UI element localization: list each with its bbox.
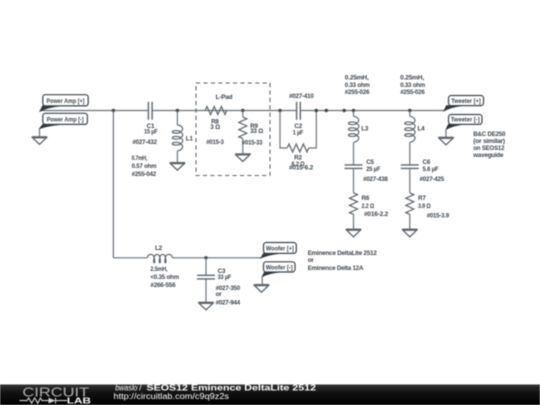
- svg-text:#255-026: #255-026: [400, 89, 425, 96]
- ground (R9): [235, 154, 250, 162]
- resistor R2 parallel branch: [280, 111, 316, 172]
- resistor R6: [350, 168, 389, 229]
- resistor R7: [406, 168, 450, 229]
- svg-text:#016-2.2: #016-2.2: [364, 211, 389, 218]
- svg-text:R6: R6: [362, 195, 370, 202]
- inductor L1: [172, 109, 193, 163]
- svg-text:1 µF: 1 µF: [293, 129, 304, 136]
- L1 value text: [132, 155, 157, 178]
- flag Woofer [+]: [261, 243, 296, 259]
- L3 value text: [345, 75, 370, 96]
- svg-text:L2: L2: [155, 245, 163, 252]
- svg-text:0.25mH,: 0.25mH,: [345, 75, 369, 82]
- wire: Power Amp [-] to ground: [39, 128, 41, 136]
- node: C3 junction: [204, 256, 207, 259]
- svg-text:Woofer [-]: Woofer [-]: [266, 265, 293, 272]
- svg-text:(or similar): (or similar): [473, 138, 505, 145]
- node: junction to woofer branch: [112, 109, 115, 112]
- node: wire junction a: [325, 109, 328, 112]
- svg-text:bwaslo: bwaslo: [115, 383, 138, 392]
- tweeter note text: [472, 131, 506, 159]
- svg-text:0.7mH,: 0.7mH,: [132, 155, 148, 162]
- svg-text:#015-3: #015-3: [206, 139, 224, 146]
- node: R9 junction: [241, 109, 244, 112]
- ground (Power Amp [-]): [32, 137, 47, 145]
- svg-text:or: or: [216, 291, 223, 298]
- resistor R8: [205, 107, 227, 147]
- flag Tweeter [+]: [444, 96, 484, 111]
- svg-text:on SEOS12: on SEOS12: [473, 145, 505, 152]
- svg-text:SEOS12 Eminence DeltaLite 2512: SEOS12 Eminence DeltaLite 2512: [147, 383, 317, 392]
- svg-text:#266-556: #266-556: [150, 282, 176, 289]
- ground (L1): [170, 163, 185, 171]
- wire: junction down to woofer branch: [112, 111, 114, 258]
- svg-text:#027-432: #027-432: [132, 139, 157, 146]
- svg-text:<0.35 ohm: <0.35 ohm: [150, 274, 179, 281]
- svg-text:or: or: [308, 257, 315, 264]
- flag Power Amp [+]: [40, 95, 88, 112]
- svg-text:Woofer [+]: Woofer [+]: [266, 246, 294, 253]
- woofer note text: [308, 250, 378, 272]
- svg-text:#015-33: #015-33: [242, 140, 263, 147]
- ground (Tweeter [-]): [438, 137, 453, 145]
- L-Pad dashed box: [196, 83, 270, 176]
- svg-text:Tweeter [+]: Tweeter [+]: [451, 98, 481, 105]
- svg-text:0.33 ohm: 0.33 ohm: [400, 82, 425, 89]
- svg-text:R7: R7: [418, 195, 426, 202]
- wire: main top horizontal from Power Amp [+] to C1 left plate: [40, 110, 148, 112]
- svg-text:#027-425: #027-425: [420, 176, 445, 183]
- svg-text:#027-410: #027-410: [289, 93, 314, 100]
- inductor L4: [405, 109, 425, 165]
- svg-text:Eminence DeltaLite 2512: Eminence DeltaLite 2512: [308, 250, 378, 257]
- node: C2 left: [278, 109, 281, 112]
- svg-text:Tweeter [-]: Tweeter [-]: [451, 117, 480, 124]
- svg-text:0.33 ohm: 0.33 ohm: [345, 82, 370, 89]
- node: C2 right: [315, 109, 318, 112]
- circuitlab logo: [20, 386, 91, 405]
- svg-text:L1: L1: [186, 135, 194, 142]
- svg-text:Power Amp [+]: Power Amp [+]: [47, 98, 85, 105]
- wire: L2 to woofer: [173, 257, 261, 259]
- svg-text:2.5mH,: 2.5mH,: [150, 266, 167, 273]
- svg-text:0.57 ohm: 0.57 ohm: [132, 163, 157, 170]
- svg-text:#027-944: #027-944: [216, 299, 241, 306]
- svg-text:#255-042: #255-042: [132, 171, 157, 178]
- svg-text:waveguide: waveguide: [472, 152, 504, 159]
- svg-text:Eminence Delta 12A: Eminence Delta 12A: [308, 265, 364, 272]
- L4 value text: [400, 75, 425, 96]
- svg-text:#015-6.2: #015-6.2: [289, 165, 314, 172]
- capacitor C5: [345, 159, 389, 183]
- svg-text:L4: L4: [418, 126, 426, 133]
- svg-text:3.9 Ω: 3.9 Ω: [418, 203, 431, 210]
- ground (R7): [402, 229, 417, 237]
- svg-text:LAB: LAB: [67, 395, 91, 405]
- svg-text:#027-438: #027-438: [363, 176, 388, 183]
- svg-text:L-Pad: L-Pad: [216, 94, 233, 101]
- svg-text:3 Ω: 3 Ω: [210, 124, 220, 131]
- wire: to L2: [113, 257, 147, 259]
- capacitor C2: [289, 93, 314, 136]
- wire: after C2 to Tweeter [+] anchor: [301, 110, 445, 112]
- svg-text:15 µF: 15 µF: [144, 129, 158, 136]
- svg-text:2.2 Ω: 2.2 Ω: [362, 203, 375, 210]
- wire: Woofer [-] to ground: [261, 277, 263, 285]
- svg-text:#255-026: #255-026: [345, 89, 370, 96]
- svg-text:Power Amp [-]: Power Amp [-]: [47, 116, 84, 123]
- svg-text:#015-3.9: #015-3.9: [427, 213, 450, 220]
- svg-text:33 µF: 33 µF: [218, 274, 232, 281]
- wire: Tweeter [-] to ground: [445, 129, 447, 137]
- svg-text:http://circuitlab.com/c9q9z2s: http://circuitlab.com/c9q9z2s: [114, 392, 230, 401]
- ground (R6): [346, 229, 361, 237]
- svg-text:B&C DE250: B&C DE250: [473, 131, 506, 138]
- svg-text:L3: L3: [361, 126, 369, 133]
- svg-text:5.6 µF: 5.6 µF: [423, 166, 439, 173]
- resistor R9: [239, 111, 263, 154]
- svg-text:33 Ω: 33 Ω: [250, 128, 263, 135]
- svg-text:25 µF: 25 µF: [366, 166, 380, 173]
- wire: C1 right plate to C2 left plate: [153, 110, 297, 112]
- capacitor C3: [197, 258, 241, 307]
- node: wire junction b: [343, 109, 346, 112]
- svg-text:0.25mH,: 0.25mH,: [400, 75, 424, 82]
- flag Power Amp [-]: [40, 113, 88, 128]
- inductor L3: [348, 109, 368, 165]
- footer bar: [0, 385, 540, 405]
- inductor L2: [147, 245, 179, 289]
- capacitor C1: [132, 102, 158, 146]
- flag Tweeter [-]: [446, 115, 482, 130]
- capacitor C6: [401, 159, 445, 183]
- ground (C3): [198, 302, 213, 310]
- flag Woofer [-]: [262, 262, 295, 277]
- ground (Woofer [-]): [254, 285, 269, 293]
